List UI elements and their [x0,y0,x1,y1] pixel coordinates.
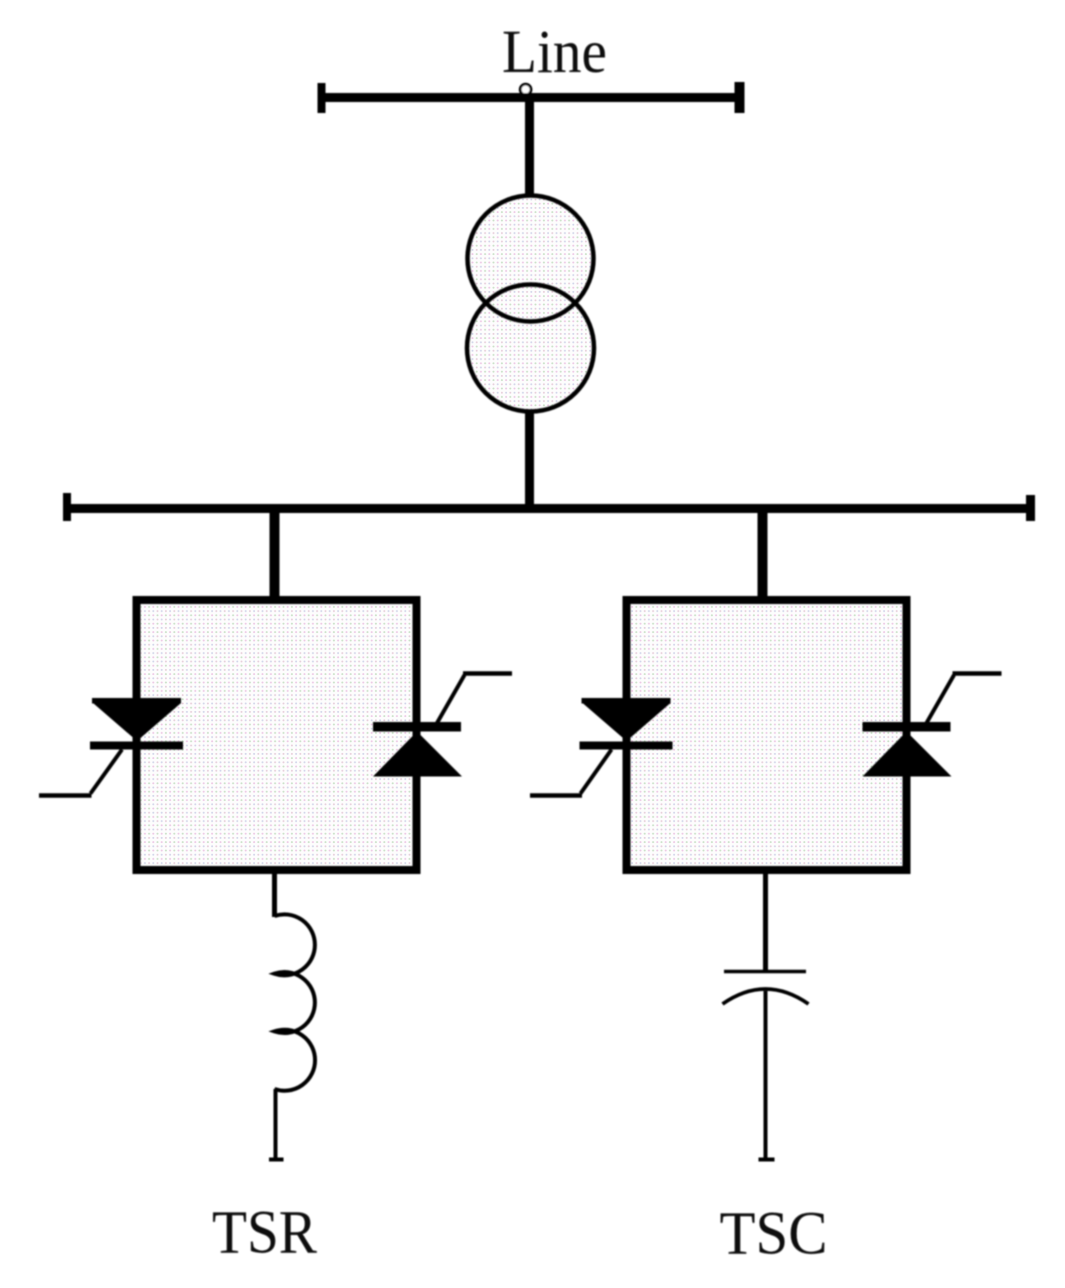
svg-text:TSR: TSR [212,1200,317,1267]
svg-text:TSC: TSC [720,1201,828,1268]
terminal cap TSC [759,1158,775,1162]
gate of V3 [581,750,612,794]
thyristor V2 (TSR box right, pointing up) [373,674,512,777]
wire below capacitor [764,991,768,1158]
reactor L (inductor coil) [275,914,316,1090]
wire below reactor [274,1089,278,1158]
node circle at line bus junction [520,84,531,95]
thyristor V4 (TSC box right, pointing up) [863,674,1002,777]
gate of V2 [437,675,465,723]
svg-text:Line: Line [502,19,607,86]
terminal cap TSR [269,1158,284,1162]
TSC thyristor valve box [627,600,907,870]
gate of V1 [91,750,123,794]
TSC valve box fill (stipple) [631,604,903,866]
busbar top (Line bus) [321,93,744,102]
bus end cap right [1026,495,1035,521]
wire transformer to lower bus [525,410,534,505]
wire bus to transformer [525,94,534,196]
wire TSR box to reactor [272,870,277,917]
busbar lower (SVC bus) [66,504,1027,513]
transformer winding fills (stipple) [467,196,594,412]
bus end cap left [63,493,71,521]
bus end cap right [735,82,745,113]
thyristor V3 (TSC box left, pointing down) [530,698,673,796]
wire TSC box to capacitor [763,870,768,971]
TSR thyristor valve box [137,600,417,870]
capacitor C top plate [724,970,806,973]
bus end cap left [318,83,326,113]
thyristor V1 (TSR box left, pointing down) [39,698,183,796]
TSR valve box fill (stipple) [141,604,413,866]
gate of V4 [927,675,955,723]
wire bus to TSR valve box [270,506,280,603]
wire bus to TSC valve box [758,506,768,603]
transformer T1 windings [467,196,594,412]
capacitor C curved plate [723,989,809,1004]
